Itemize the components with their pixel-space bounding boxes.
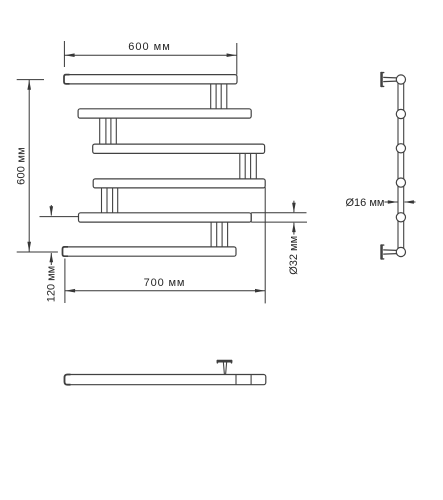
svg-text:600 мм: 600 мм: [15, 147, 27, 185]
svg-text:700 мм: 700 мм: [144, 277, 186, 289]
svg-text:600 мм: 600 мм: [128, 41, 171, 53]
svg-text:Ø16 мм: Ø16 мм: [346, 197, 385, 209]
svg-text:Ø32 мм: Ø32 мм: [288, 236, 300, 275]
svg-text:120 мм: 120 мм: [46, 266, 58, 303]
